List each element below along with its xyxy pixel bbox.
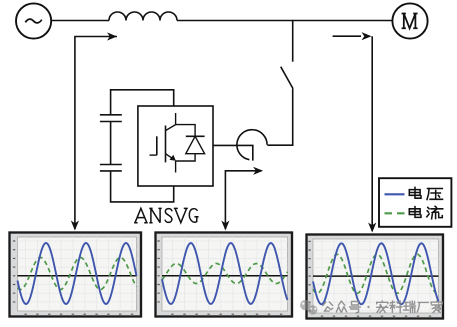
- wire: switch to CT: [267, 89, 292, 146]
- plot 3 zero axis line: [313, 275, 439, 277]
- scope plot 1 frame: [10, 233, 142, 317]
- inductor L1: [109, 12, 177, 21]
- legend entry: current, green dashed line, label 电流: [385, 206, 443, 219]
- legend entry: voltage, blue solid line, label 电压: [385, 187, 443, 199]
- motor M: [392, 3, 427, 38]
- current sensor CT1 (circle with tail): [213, 130, 267, 161]
- switch S1 branch wire: [292, 21, 294, 62]
- capacitor C2: [100, 165, 122, 171]
- watermark text: [323, 301, 443, 313]
- wire: source to inductor: [51, 20, 109, 22]
- scope plot 3 frame: [307, 235, 444, 319]
- legend box: [379, 178, 451, 227]
- wire: between capacitors: [110, 122, 112, 165]
- wire: converter top loop: [111, 90, 174, 115]
- switch S1 blade: [281, 67, 293, 89]
- plot 1 voltage trace (blue): [18, 243, 137, 304]
- watermark logo: [300, 300, 317, 315]
- converter box U1: [138, 106, 213, 186]
- measurement tap arrow 3 (to scope 3): [333, 32, 377, 232]
- node: junction of top bus and switch branch: [292, 20, 294, 22]
- measurement tap arrow 2 (to scope 2): [221, 167, 263, 231]
- plot 1 current trace (green dashed): [18, 258, 137, 290]
- plot 2 zero axis line: [162, 275, 288, 277]
- IGBT Q1: [150, 113, 176, 173]
- plot 2 current trace (green dashed): [162, 264, 288, 284]
- diode D1: [176, 125, 205, 161]
- AC source G1: [16, 3, 51, 38]
- plot 1 zero axis line: [18, 275, 137, 277]
- wire: converter bottom loop: [111, 171, 174, 202]
- scope plot 2 frame: [156, 233, 293, 317]
- plot 3 current trace (green dashed): [313, 254, 439, 293]
- plot 3 voltage trace (blue): [313, 243, 439, 304]
- capacitor C1: [100, 115, 122, 122]
- plot 2 voltage trace (blue): [162, 243, 288, 304]
- measurement tap arrow 1 (to scope 1): [71, 32, 117, 230]
- wire: inductor to motor: [177, 20, 392, 22]
- label ANSVG: [134, 208, 199, 222]
